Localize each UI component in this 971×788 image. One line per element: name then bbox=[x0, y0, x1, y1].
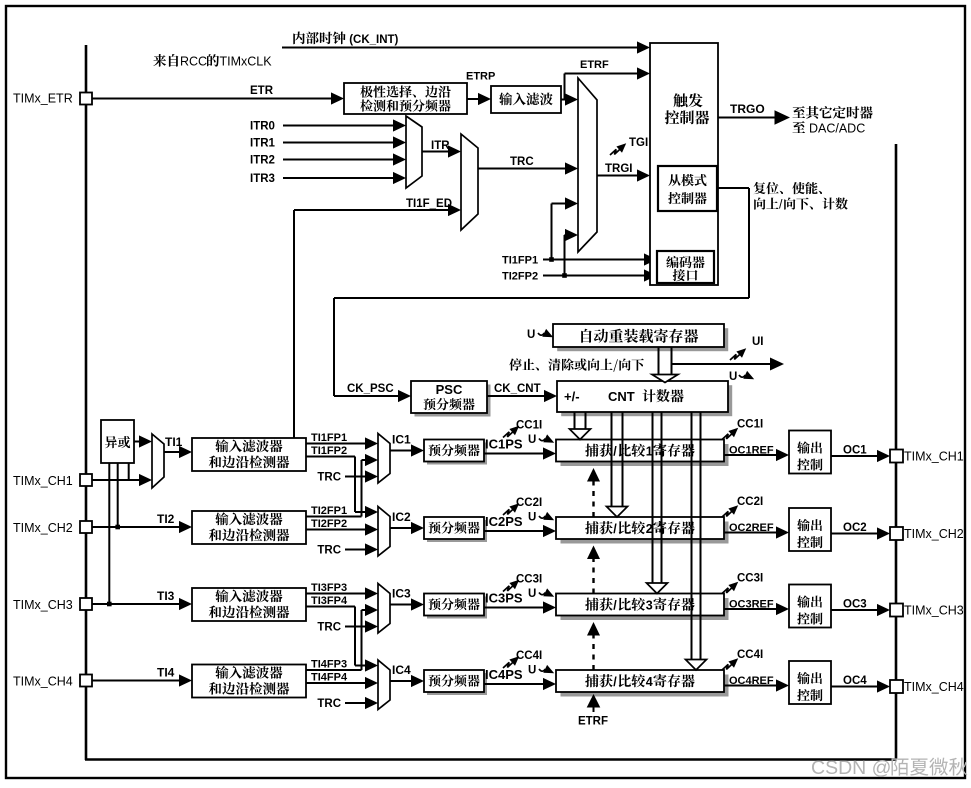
svg-text:TIMx_CH3: TIMx_CH3 bbox=[13, 598, 73, 612]
svg-text:CNT: CNT bbox=[608, 389, 638, 404]
mux IC1 select bbox=[378, 434, 390, 484]
svg-text:CC3I: CC3I bbox=[516, 574, 542, 586]
label 停止、清除或向上/向下 bbox=[509, 358, 644, 371]
symbol UI interrupt bbox=[730, 353, 742, 360]
block 输出控制 CH4 bbox=[789, 661, 831, 704]
svg-text:CSDN @: CSDN @ bbox=[811, 757, 891, 779]
label 控制 CH1 bbox=[797, 459, 822, 471]
svg-text:TI1FP2: TI1FP2 bbox=[311, 445, 347, 457]
block 输入滤波器和边沿检测器 CH2 bbox=[192, 511, 306, 544]
wire OC3 bbox=[831, 609, 878, 611]
wire IC1PS bbox=[484, 453, 544, 455]
label 向上/向下、计数 bbox=[754, 198, 778, 210]
wire TRGO bbox=[718, 117, 776, 119]
wire right bus bbox=[895, 144, 898, 760]
svg-text:ITR0: ITR0 bbox=[250, 121, 275, 133]
wire ITR3 bbox=[283, 177, 394, 179]
symbol CC1I interrupt left bbox=[503, 430, 515, 437]
block 输出控制 CH3 bbox=[789, 585, 831, 628]
svg-text:/: / bbox=[613, 599, 617, 613]
svg-text:TRC: TRC bbox=[317, 622, 341, 634]
block 异或 bbox=[101, 420, 134, 463]
svg-text:ETR: ETR bbox=[250, 85, 274, 97]
arrow 计数器到捕获比较2 bbox=[611, 412, 613, 507]
svg-text:TI2FP1: TI2FP1 bbox=[311, 505, 347, 517]
svg-text:CC1I: CC1I bbox=[516, 420, 542, 432]
wire ETRF to 捕获比较4 bbox=[593, 705, 595, 712]
wire IC4 bbox=[390, 680, 412, 682]
svg-text:U: U bbox=[528, 588, 536, 600]
svg-text:TI3FP3: TI3FP3 bbox=[311, 582, 347, 594]
wire ETRF bbox=[564, 74, 566, 100]
svg-text:TIMx_ETR: TIMx_ETR bbox=[13, 92, 73, 106]
wire TRGI bbox=[597, 175, 638, 177]
junction CH2 xor bbox=[115, 525, 120, 530]
svg-text:4: 4 bbox=[646, 675, 653, 689]
wire slave mode to CK_PSC bbox=[717, 187, 749, 189]
pad TIMx_CH1 right bbox=[890, 450, 903, 463]
wire ETRP bbox=[467, 98, 479, 100]
mux TRGI select bbox=[578, 78, 597, 252]
svg-text:IC4PS: IC4PS bbox=[485, 667, 523, 682]
label 预分频器 CH1 bbox=[429, 444, 480, 456]
mux IC4 select bbox=[378, 660, 390, 710]
wire TI4FP4 bbox=[306, 682, 366, 684]
wire TI4 bbox=[92, 680, 180, 682]
label 预分频器 CH3 bbox=[429, 598, 480, 610]
block 输入滤波器和边沿检测器 CH3 bbox=[192, 588, 306, 621]
svg-text:(CK_INT): (CK_INT) bbox=[346, 34, 399, 46]
wire CH1 to mux bbox=[92, 479, 140, 481]
svg-text:TI2: TI2 bbox=[157, 512, 175, 526]
pad TIMx_CH3 right bbox=[890, 604, 903, 617]
svg-text:TIMx_CH1: TIMx_CH1 bbox=[13, 474, 73, 488]
svg-text:/: / bbox=[613, 445, 617, 459]
svg-text:IC1: IC1 bbox=[392, 433, 411, 447]
block 捕获比较2寄存器 bbox=[561, 522, 729, 544]
symbol U event(计数器) bbox=[739, 375, 745, 377]
svg-text:TI4FP4: TI4FP4 bbox=[311, 672, 348, 684]
wire ITR1 bbox=[283, 142, 394, 144]
svg-text:TIMx_CH4: TIMx_CH4 bbox=[13, 675, 73, 689]
svg-text:CC4I: CC4I bbox=[516, 650, 542, 662]
label 捕获/比较3寄存器 bbox=[585, 598, 613, 611]
svg-text:TI4: TI4 bbox=[157, 666, 175, 680]
wire IC1 bbox=[390, 450, 412, 452]
wire TI3FP3 bbox=[306, 593, 366, 595]
label 至其它定时器 bbox=[793, 106, 873, 119]
label 输入滤波器 CH1 bbox=[215, 439, 282, 452]
arrow 计数器到捕获比较4 bbox=[691, 412, 693, 660]
svg-text:TGI: TGI bbox=[629, 137, 648, 149]
block 自动重装载寄存器 bbox=[557, 328, 728, 351]
arrow 比较4到比较3 dashed bbox=[592, 636, 594, 671]
svg-text:TIMx_CH4: TIMx_CH4 bbox=[904, 680, 964, 694]
wire ITR2 bbox=[283, 159, 394, 161]
wire TI1FP1 bbox=[306, 443, 366, 445]
svg-text:CC1I: CC1I bbox=[737, 419, 763, 431]
block 预分频器 CH1 bbox=[427, 443, 487, 465]
label 控制 CH3 bbox=[797, 613, 822, 625]
block 输入滤波器和边沿检测器 CH1 bbox=[192, 438, 306, 471]
block 输入滤波 bbox=[491, 86, 561, 113]
pad TIMx_CH2 left bbox=[80, 521, 92, 533]
symbol CC1I interrupt right bbox=[722, 432, 734, 439]
svg-text:/: / bbox=[613, 522, 617, 536]
svg-text:IC4: IC4 bbox=[392, 663, 411, 677]
label 编码器 bbox=[666, 256, 704, 268]
label 控制 CH4 bbox=[797, 689, 822, 701]
block 触发控制器 bbox=[650, 43, 718, 285]
svg-text:OC1: OC1 bbox=[843, 445, 867, 457]
label 和边沿检测器 CH4 bbox=[209, 682, 289, 695]
wire OC1 bbox=[831, 455, 878, 457]
svg-text:TIMxCLK: TIMxCLK bbox=[220, 55, 273, 69]
wire ITR bbox=[422, 151, 449, 153]
wire TI1FP2 cross down bbox=[306, 456, 355, 458]
wire TI4FP3 cross up bbox=[306, 669, 362, 671]
label 复位、使能、 bbox=[754, 182, 823, 194]
wire IC4PS bbox=[484, 683, 544, 685]
svg-text:U: U bbox=[528, 665, 536, 677]
label 控制器(从模式) bbox=[668, 192, 707, 204]
pad TIMx_ETR bbox=[80, 93, 92, 105]
svg-text:CK_PSC: CK_PSC bbox=[347, 383, 394, 395]
pad TIMx_CH1 left bbox=[80, 474, 92, 486]
block 捕获比较4寄存器 bbox=[561, 675, 729, 697]
pad TIMx_CH3 left bbox=[80, 598, 92, 610]
arrow 重装载到计数器 bbox=[658, 347, 660, 375]
wire OC2REF bbox=[724, 532, 777, 534]
block 输出控制 CH2 bbox=[789, 508, 831, 551]
label 输入滤波器 CH4 bbox=[215, 666, 282, 679]
mux IC3 select bbox=[378, 584, 390, 634]
svg-text:TRGI: TRGI bbox=[605, 163, 632, 175]
junction CH3 xor bbox=[107, 602, 112, 607]
svg-text:OC4: OC4 bbox=[843, 675, 867, 687]
wire IC2PS bbox=[484, 530, 544, 532]
svg-text:ETRP: ETRP bbox=[466, 71, 495, 83]
symbol CC3I interrupt right bbox=[722, 586, 734, 593]
wire CK_CNT bbox=[487, 395, 545, 397]
label 来自RCC的TIMxCLK bbox=[153, 54, 178, 67]
wire TI2FP2 bbox=[306, 529, 366, 531]
label 和边沿检测器 CH2 bbox=[209, 529, 289, 542]
block 预分频器 CH3 bbox=[427, 597, 487, 619]
symbol U event CH4 bbox=[539, 669, 545, 671]
svg-text:IC2: IC2 bbox=[392, 510, 411, 524]
label 输入滤波器 CH2 bbox=[215, 512, 282, 525]
label 控制 CH2 bbox=[797, 536, 822, 548]
wire CK_INT bbox=[282, 47, 638, 49]
label 异或 bbox=[105, 436, 130, 448]
wire OC2 bbox=[831, 533, 878, 535]
svg-text:ETRF: ETRF bbox=[578, 716, 608, 728]
label 从模式 bbox=[668, 174, 706, 186]
pad TIMx_CH4 left bbox=[80, 675, 92, 687]
svg-text:CC2I: CC2I bbox=[516, 497, 542, 509]
label 输出 CH3 bbox=[797, 595, 822, 607]
wire TRC bbox=[478, 168, 566, 170]
label 预分频器(PSC) bbox=[424, 398, 475, 410]
svg-text:PSC: PSC bbox=[436, 382, 463, 397]
svg-text:TI3FP4: TI3FP4 bbox=[311, 595, 348, 607]
label 捕获/比较4寄存器 bbox=[585, 674, 613, 687]
svg-text:IC3PS: IC3PS bbox=[485, 591, 523, 606]
mux IC2 select bbox=[378, 507, 390, 557]
wire TI2 bbox=[92, 526, 180, 528]
pad TIMx_CH2 right bbox=[890, 527, 903, 540]
wire OC1REF bbox=[724, 454, 777, 456]
wire IC3 bbox=[390, 604, 412, 606]
svg-text:U: U bbox=[528, 512, 536, 524]
wire TRC CH3 bbox=[345, 626, 366, 628]
wire TI1F_ED bbox=[293, 210, 295, 438]
symbol U event(重装载) bbox=[538, 333, 544, 335]
label 和边沿检测器 CH3 bbox=[209, 606, 289, 619]
arrow 比较3到比较2 dashed bbox=[592, 559, 594, 594]
pad TIMx_CH4 right bbox=[890, 680, 903, 693]
arrow 计数器到捕获比较3 bbox=[652, 412, 654, 583]
wire filtered ETRP to mux bbox=[561, 99, 566, 101]
label 输出 CH4 bbox=[797, 672, 822, 684]
wire 异或 inputs bbox=[108, 463, 110, 604]
block PSC 预分频器 bbox=[415, 385, 491, 417]
block 从模式控制器 bbox=[658, 166, 717, 211]
wire OC4 bbox=[831, 686, 878, 688]
svg-text:TI1F_ED: TI1F_ED bbox=[406, 198, 452, 210]
svg-text:ITR: ITR bbox=[431, 140, 450, 152]
block 预分频器 CH2 bbox=[427, 520, 487, 542]
label 触发 bbox=[673, 93, 702, 107]
svg-text:TRC: TRC bbox=[317, 698, 341, 710]
symbol CC2I interrupt left bbox=[503, 508, 515, 515]
svg-text:TIMx_CH2: TIMx_CH2 bbox=[904, 527, 964, 541]
wire TRC CH2 bbox=[345, 549, 366, 551]
mux ITR select bbox=[406, 116, 422, 188]
wire TI1 bbox=[164, 451, 180, 453]
svg-text:ITR3: ITR3 bbox=[250, 173, 275, 185]
svg-text:TRGO: TRGO bbox=[730, 102, 765, 116]
wire TI3 bbox=[92, 603, 180, 605]
svg-text:ETRF: ETRF bbox=[580, 59, 609, 71]
svg-text:TI1FP1: TI1FP1 bbox=[311, 432, 347, 444]
wire ETR bbox=[92, 98, 332, 100]
label 预分频器 CH4 bbox=[429, 674, 480, 686]
symbol U event CH3 bbox=[539, 593, 545, 595]
svg-text:OC3: OC3 bbox=[843, 599, 867, 611]
svg-text:TRC: TRC bbox=[510, 156, 534, 168]
label 检测和预分频器 bbox=[360, 99, 450, 111]
symbol U event CH2 bbox=[539, 516, 545, 518]
wire ITR0 bbox=[283, 125, 394, 127]
svg-text:IC2PS: IC2PS bbox=[485, 514, 523, 529]
symbol U event CH1 bbox=[539, 439, 545, 441]
arrow 比较2到比较1 dashed bbox=[592, 482, 594, 518]
wire 异或 out bbox=[134, 441, 140, 443]
svg-text:U: U bbox=[528, 434, 536, 446]
svg-text:U: U bbox=[527, 329, 535, 341]
symbol TGI interrupt bbox=[610, 148, 622, 155]
svg-text:TRC: TRC bbox=[317, 472, 341, 484]
block CNT 计数器 bbox=[561, 385, 732, 416]
svg-text:U: U bbox=[729, 371, 737, 383]
svg-text:ITR2: ITR2 bbox=[250, 155, 275, 167]
svg-text:OC2: OC2 bbox=[843, 522, 867, 534]
label 自动重装载寄存器 bbox=[581, 329, 698, 343]
svg-text:CC2I: CC2I bbox=[737, 496, 763, 508]
block 捕获比较1寄存器 bbox=[561, 444, 729, 466]
wire TRC CH4 bbox=[345, 702, 366, 704]
svg-text:UI: UI bbox=[752, 336, 764, 348]
svg-text:TI3: TI3 bbox=[157, 589, 175, 603]
label 输出 CH2 bbox=[797, 519, 822, 531]
svg-text:TIMx_CH1: TIMx_CH1 bbox=[904, 450, 964, 464]
wire OC4REF bbox=[724, 685, 777, 687]
label 极性选择、边沿 bbox=[360, 85, 450, 97]
svg-text:+/-: +/- bbox=[564, 389, 580, 404]
wire U event bbox=[672, 363, 771, 365]
label 捕获/比较1寄存器 bbox=[585, 444, 613, 457]
wire TRC CH1 bbox=[345, 476, 366, 478]
label 和边沿检测器 CH1 bbox=[209, 456, 289, 469]
svg-text:TI4FP3: TI4FP3 bbox=[311, 659, 347, 671]
svg-text:/: / bbox=[613, 675, 617, 689]
wire OC3REF bbox=[724, 608, 777, 610]
wire CK_PSC bbox=[334, 395, 399, 397]
wire IC2 bbox=[390, 527, 412, 529]
svg-text:IC3: IC3 bbox=[392, 587, 411, 601]
label 捕获/比较2寄存器 bbox=[585, 521, 613, 534]
wire IC3PS bbox=[484, 607, 544, 609]
svg-text:TI1FP1: TI1FP1 bbox=[502, 255, 538, 267]
wire TI2FP1 cross up bbox=[306, 516, 362, 518]
arrow 计数器到捕获比较1 bbox=[574, 412, 576, 429]
label 输入滤波 bbox=[499, 92, 553, 105]
svg-text:TRC: TRC bbox=[317, 545, 341, 557]
block 输入滤波器和边沿检测器 CH4 bbox=[192, 665, 306, 698]
symbol CC4I interrupt left bbox=[503, 661, 515, 668]
svg-text:RCC: RCC bbox=[180, 55, 207, 69]
symbol CC4I interrupt right bbox=[722, 663, 734, 670]
svg-text:TI2FP2: TI2FP2 bbox=[311, 518, 347, 530]
label 至 DAC/ADC bbox=[793, 121, 806, 133]
svg-text:CC3I: CC3I bbox=[737, 573, 763, 585]
svg-text:CK_CNT: CK_CNT bbox=[494, 383, 541, 395]
svg-text:DAC/ADC: DAC/ADC bbox=[806, 122, 866, 136]
svg-text:TIMx_CH2: TIMx_CH2 bbox=[13, 521, 73, 535]
label 控制器(触发) bbox=[665, 110, 709, 124]
block 预分频器 CH4 bbox=[427, 673, 487, 695]
junction TI2FP2 bbox=[562, 273, 567, 278]
label 预分频器 CH2 bbox=[429, 521, 480, 533]
label 接口 bbox=[673, 269, 698, 281]
label 内部时钟 (CK_INT) bbox=[293, 32, 345, 45]
mux TI1 select bbox=[152, 434, 164, 488]
svg-text:IC1PS: IC1PS bbox=[485, 437, 523, 452]
svg-text:CC4I: CC4I bbox=[737, 649, 763, 661]
wire bottom bus bbox=[85, 758, 897, 761]
wire TI3FP4 cross down bbox=[306, 606, 355, 608]
symbol CC2I interrupt right bbox=[722, 510, 734, 517]
symbol CC3I interrupt left bbox=[503, 584, 515, 591]
block 编码器接口 bbox=[657, 251, 714, 283]
label 输出 CH1 bbox=[797, 441, 822, 453]
svg-text:TI2FP2: TI2FP2 bbox=[502, 271, 538, 283]
label 输入滤波器 CH3 bbox=[215, 589, 282, 602]
wire TI2FP2 bbox=[543, 275, 645, 277]
svg-text:ITR1: ITR1 bbox=[250, 138, 276, 150]
svg-text:TIMx_CH3: TIMx_CH3 bbox=[904, 604, 964, 618]
wire TI1FP1 bbox=[543, 259, 645, 261]
junction TI1FP1 bbox=[549, 257, 554, 262]
block 捕获比较3寄存器 bbox=[561, 598, 729, 620]
block 输出控制 CH1 bbox=[789, 431, 831, 474]
svg-text:/: / bbox=[779, 198, 783, 212]
svg-text:3: 3 bbox=[646, 599, 653, 613]
wire left bus bbox=[85, 45, 88, 760]
block 极性选择 bbox=[344, 83, 467, 114]
mux TRC select bbox=[461, 134, 478, 230]
